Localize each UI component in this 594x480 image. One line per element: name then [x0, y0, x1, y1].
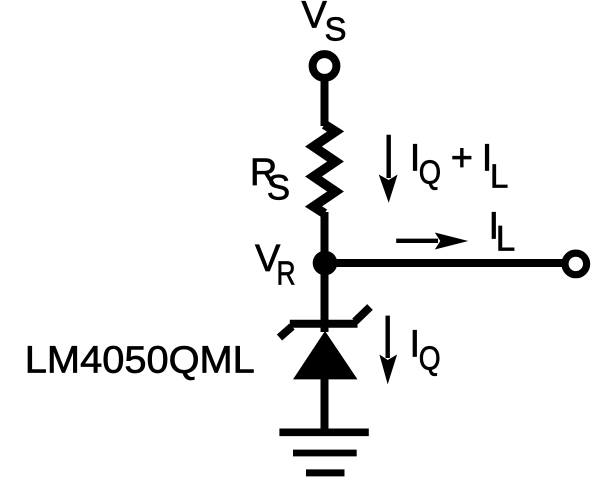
zener right wing	[355, 307, 370, 322]
current arrow IQ+IL	[379, 135, 398, 203]
wire node VR to zener cathode	[321, 263, 329, 332]
zener left wing	[280, 327, 293, 338]
load terminal (open circle)	[565, 253, 587, 275]
zener diode D1 LM4050QML cathode bar	[290, 320, 358, 328]
resistor RS	[314, 125, 336, 214]
current arrow IQ	[379, 316, 397, 385]
label IL	[489, 206, 516, 259]
label IQ	[410, 323, 441, 377]
svg-text:Q: Q	[419, 340, 441, 377]
zener anode triangle	[293, 331, 358, 379]
svg-text:R: R	[277, 256, 296, 292]
label IQ + IL	[410, 137, 509, 194]
wire node VR to load terminal	[325, 259, 576, 267]
ground symbol	[279, 432, 368, 473]
junction node VR (dot)	[313, 251, 338, 276]
terminal VS (open circle)	[313, 54, 337, 78]
svg-text:S: S	[325, 11, 347, 48]
wire zener anode to ground	[321, 378, 329, 432]
wire VS terminal to resistor	[321, 82, 329, 127]
svg-text:L: L	[490, 158, 508, 195]
svg-text:Q: Q	[419, 154, 441, 191]
wire resistor to node VR	[321, 212, 329, 263]
svg-text:+: +	[451, 137, 473, 179]
svg-text:L: L	[496, 220, 515, 259]
current arrow IL	[396, 233, 468, 250]
svg-text:S: S	[267, 168, 290, 207]
svg-text:LM4050QML: LM4050QML	[25, 339, 255, 381]
